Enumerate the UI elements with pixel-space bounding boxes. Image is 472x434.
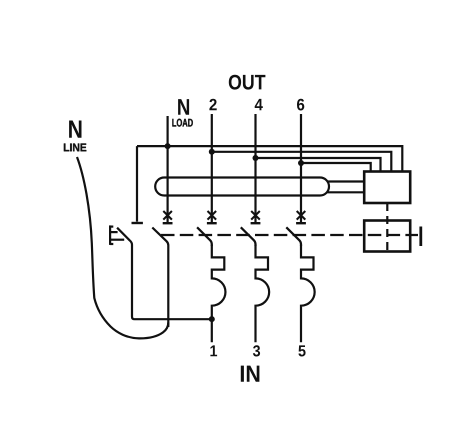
- wire terminal6 vertical: [300, 114, 302, 212]
- node bus4-term6 junction: [298, 160, 304, 166]
- breaker contact X pole 6: [296, 211, 306, 223]
- label terminal 6: [297, 99, 304, 111]
- label terminal 4: [255, 99, 263, 110]
- label OUT: [229, 75, 266, 90]
- wire terminal4 vertical: [254, 114, 256, 212]
- mechanical link vertical dashed: [386, 203, 388, 252]
- node test wire to pole1 junction: [209, 316, 215, 322]
- mechanical link horizontal dashed: [161, 234, 418, 236]
- toroid secondary lead upper: [328, 180, 365, 182]
- breaker contact X pole 4: [251, 211, 261, 223]
- toroid current transformer core: [155, 178, 329, 196]
- wire N load vertical: [167, 116, 169, 212]
- switch blade pole 5: [286, 227, 301, 246]
- armature end bar: [419, 227, 422, 247]
- test fixed contact T-bar: [132, 222, 143, 224]
- trip solenoid box: [364, 221, 410, 252]
- label terminal 5: [298, 345, 305, 356]
- label LINE: [64, 144, 86, 152]
- wire N line big curve: [77, 157, 168, 338]
- label N (line): [69, 121, 81, 138]
- wire bus1 from N load to amplifier box: [137, 146, 402, 171]
- wire bus2 from terminal2 to amplifier box: [212, 152, 391, 172]
- label terminal 3: [253, 345, 260, 356]
- switch blade pole 3: [241, 227, 256, 246]
- node bus3-term4 junction: [253, 155, 259, 161]
- test button actuator: [110, 225, 124, 245]
- node bus1-Nload junction: [165, 143, 171, 149]
- toroid secondary lead lower: [328, 191, 365, 193]
- label N (load): [178, 99, 189, 115]
- wire bus4 from terminal6 to amplifier box: [301, 163, 371, 172]
- label IN: [241, 366, 260, 382]
- switch blade pole 1: [197, 227, 212, 246]
- breaker contact X pole 2: [207, 211, 217, 223]
- label LOAD: [172, 119, 192, 127]
- wire bus1 left drop to test contact: [136, 146, 138, 222]
- breaker contact X pole N: [163, 211, 173, 223]
- switch blade pole N: [152, 228, 168, 328]
- label terminal 2: [209, 99, 216, 111]
- label terminal 1: [210, 345, 217, 356]
- amplifier box U1: [364, 172, 410, 204]
- wire bus3 from terminal4 to amplifier box: [256, 158, 381, 172]
- test button blade and wire to pole1: [117, 228, 212, 320]
- trip element pole 3: [256, 245, 270, 343]
- node bus2-term2 junction: [209, 149, 215, 155]
- trip element pole 1: [212, 245, 226, 343]
- wire terminal2 vertical: [211, 114, 213, 212]
- trip element pole 5: [301, 245, 315, 343]
